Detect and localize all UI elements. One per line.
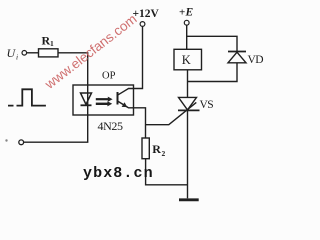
svg-text:i: i xyxy=(16,53,18,62)
svg-text:R: R xyxy=(152,142,161,156)
svg-text:U: U xyxy=(7,46,17,60)
svg-text:+: + xyxy=(179,7,185,19)
svg-text:E: E xyxy=(185,7,194,19)
svg-text:VS: VS xyxy=(200,99,214,111)
svg-text:K: K xyxy=(182,53,191,67)
svg-text:2: 2 xyxy=(162,149,166,158)
svg-text:VD: VD xyxy=(248,54,264,66)
svg-text:OP: OP xyxy=(102,71,116,82)
svg-text:1: 1 xyxy=(50,39,54,48)
svg-text:4N25: 4N25 xyxy=(98,119,123,133)
